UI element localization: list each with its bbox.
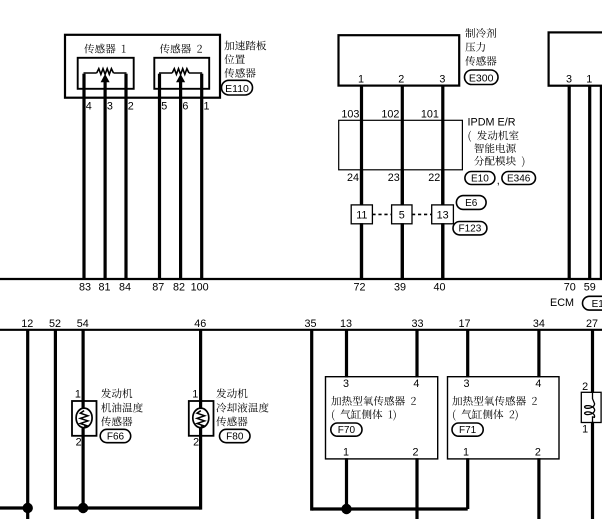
svg-text:24: 24	[347, 172, 359, 184]
IPDM label ( 发动机室	[469, 130, 519, 141]
svg-text:E300: E300	[469, 72, 494, 84]
potentiometer sensor2 wiper arrow	[177, 75, 184, 82]
ECM pin 70 label	[564, 281, 576, 293]
sensor2 pin1 drop	[200, 74, 203, 98]
F80 label 发动机	[216, 388, 247, 398]
wire E300-1 to IPDM	[360, 86, 363, 279]
E300 pin 1 label	[358, 74, 364, 86]
E110 side label 传感器	[224, 68, 255, 78]
ground rail 1	[55, 506, 200, 509]
svg-text:1: 1	[204, 101, 210, 113]
F66 label 发动机	[101, 388, 132, 398]
svg-text:2: 2	[535, 446, 541, 458]
svg-text:1: 1	[358, 74, 364, 86]
wire ECM 46 to F80	[199, 330, 202, 401]
svg-text:22: 22	[428, 172, 440, 184]
svg-text:1: 1	[75, 388, 81, 400]
F80 pin 2 label	[193, 437, 199, 449]
svg-text:4: 4	[535, 378, 541, 390]
wire E300-2 to IPDM	[401, 86, 404, 279]
ECM pin 59 label	[584, 281, 596, 293]
wire F71 pin2 down	[537, 458, 540, 519]
connector ref F66 oval	[100, 429, 131, 442]
IPDM pin 24 label	[347, 172, 359, 184]
IPDM pin 23 label	[388, 172, 400, 184]
connector ref E10 oval	[465, 172, 495, 185]
svg-text:11: 11	[356, 210, 367, 222]
svg-text:F80: F80	[226, 432, 244, 443]
svg-text:101: 101	[421, 108, 439, 120]
F66 label 机油温度	[101, 403, 143, 413]
wire F80 pin2 to rail	[199, 435, 202, 510]
connector ref E16 oval (cropped)	[583, 296, 602, 310]
svg-text:F66: F66	[107, 432, 125, 443]
engine coolant temp sensor F80 box	[189, 401, 214, 436]
svg-text:13: 13	[437, 210, 449, 222]
F70 pin 2 label	[412, 446, 418, 458]
E300 side label 压力	[465, 42, 485, 52]
ECM pin 81 label	[98, 281, 110, 293]
wire F66 pin2 to rail	[81, 435, 84, 508]
E300 side label 制冷剂	[465, 28, 496, 38]
E110 pin 5 label	[161, 101, 167, 113]
potentiometer sensor1 wiper arrow	[101, 75, 108, 82]
ECM pin 40 label	[433, 281, 445, 293]
sensor1 pin4 drop	[82, 74, 85, 98]
E300 pin 2 label	[398, 74, 404, 86]
wire E110 to ECM pin 81	[103, 98, 106, 279]
F71 pin 2 label	[535, 446, 541, 458]
E110 pin 4 label	[86, 101, 92, 113]
F66 thermistor zigzag	[80, 411, 88, 427]
svg-text:E6: E6	[465, 198, 478, 209]
heater coil	[585, 393, 595, 422]
svg-text:F123: F123	[459, 224, 482, 235]
svg-text:81: 81	[98, 281, 110, 293]
accelerator pedal position sensor E110 outer box	[65, 35, 220, 98]
IPDM pin 103 label	[341, 108, 359, 120]
ECM name label	[550, 297, 574, 309]
F70 pin 1 label	[343, 446, 349, 458]
junction dot on wire 12	[23, 503, 33, 513]
F71 label ( 气缸侧体 2 )	[453, 409, 518, 420]
svg-text:13: 13	[340, 318, 352, 330]
svg-text:4: 4	[86, 101, 92, 113]
wire E110 to ECM pin 83	[82, 98, 85, 279]
svg-text:2: 2	[128, 101, 134, 113]
svg-text:5: 5	[161, 101, 167, 113]
F80 interior wire stub bottom	[199, 425, 202, 436]
sensor2 pin5 drop	[158, 74, 161, 98]
wire heater pin1 down	[591, 422, 594, 519]
E110 pin 1 label	[204, 101, 210, 113]
sensor1 pin2 drop	[124, 74, 127, 98]
wire top-right pin1 to ECM 59	[588, 86, 591, 279]
IPDM label 分配模块 )	[474, 156, 524, 167]
IPDM label 智能电源	[474, 143, 516, 153]
wire ECM 34 to F71 pin4	[537, 330, 540, 378]
svg-text:E346: E346	[507, 173, 531, 184]
wire ECM 13 to F70 pin3	[345, 330, 348, 378]
svg-text:102: 102	[381, 108, 399, 120]
ECM pin 83 label	[79, 281, 91, 293]
svg-text:100: 100	[191, 281, 209, 293]
F80 label 冷却液温度	[217, 403, 269, 413]
svg-text:E10: E10	[471, 173, 489, 184]
svg-text:1: 1	[343, 446, 349, 458]
ground rail 2	[312, 507, 468, 510]
connector ref F70 oval	[331, 423, 362, 436]
svg-text:17: 17	[458, 318, 470, 330]
F80 thermistor zigzag	[197, 411, 205, 427]
svg-text:3: 3	[439, 74, 445, 86]
wire connector 13 to ECM 40	[441, 223, 444, 279]
svg-text:87: 87	[152, 281, 164, 293]
heater element box (cropped)	[581, 392, 601, 422]
E110 pin 6 label	[182, 101, 188, 113]
svg-text:52: 52	[49, 318, 61, 330]
ECM top edge line	[0, 278, 602, 280]
svg-text:1: 1	[463, 446, 469, 458]
connector ref F80 oval	[220, 429, 251, 442]
svg-text:27: 27	[586, 318, 598, 330]
svg-text:12: 12	[21, 318, 33, 330]
comma between E10 and E346	[497, 175, 500, 187]
wire ECM 12 down	[26, 330, 29, 519]
ECM pin 27 label	[586, 318, 598, 330]
svg-text:54: 54	[77, 318, 89, 330]
potentiometer sensor1 inner box	[78, 58, 134, 89]
ECM pin 33 label	[411, 318, 423, 330]
F80 interior wire stub top	[199, 400, 202, 412]
svg-text:ECM: ECM	[550, 297, 574, 309]
potentiometer sensor2 track	[159, 72, 202, 74]
IPDM pin 22 label	[428, 172, 440, 184]
svg-text:82: 82	[173, 281, 185, 293]
F66 pin 1 label	[75, 388, 81, 400]
wire E110 to ECM pin 84	[124, 98, 127, 279]
F66 interior wire stub bottom	[81, 425, 84, 436]
svg-text:72: 72	[353, 281, 365, 293]
ECM pin 82 label	[173, 281, 185, 293]
wire connector 11 to ECM 72	[360, 223, 363, 279]
F66 thermistor ellipse	[76, 408, 92, 428]
svg-text:83: 83	[79, 281, 91, 293]
top-right pin 3 label	[566, 74, 572, 86]
IPDM E/R name label	[468, 117, 516, 129]
junction dot F70 on rail 2	[341, 504, 351, 514]
wire ECM 12 branch left	[0, 506, 28, 509]
connector ref E110 oval	[222, 80, 253, 95]
F66 label 传感器	[101, 417, 132, 427]
F80 thermistor ellipse	[193, 408, 209, 428]
connector ref F123 oval	[453, 222, 487, 235]
connector ref E6 oval	[456, 196, 486, 210]
wire ECM 35 down	[310, 330, 313, 511]
F71 pin 1 label	[463, 446, 469, 458]
wire E110 to ECM pin 87	[158, 98, 161, 279]
dashed link 11-5	[372, 213, 391, 215]
engine oil temp sensor F66 box	[72, 401, 97, 436]
label sensor1 传感器 1	[84, 44, 125, 54]
ECM pin 46 label	[194, 318, 206, 330]
wire F71 pin1 up from rail 2	[466, 458, 469, 509]
connector ref F71 oval	[452, 423, 483, 436]
svg-text:2: 2	[412, 446, 418, 458]
wire ECM 54 to F66	[81, 330, 84, 401]
ECM pin 13 label	[340, 318, 352, 330]
wire E300-3 to IPDM	[441, 86, 444, 279]
wire connector 5 to ECM 39	[401, 223, 404, 279]
F71 pin 3 label	[463, 378, 469, 390]
svg-text:1: 1	[582, 423, 588, 435]
ECM pin 100 label	[191, 281, 209, 293]
wire IPDM 24 to connector 11	[360, 170, 363, 206]
svg-text:70: 70	[564, 281, 576, 293]
top-right pin 1 label	[586, 74, 592, 86]
svg-text:2: 2	[398, 74, 404, 86]
svg-text:84: 84	[119, 281, 131, 293]
svg-text:59: 59	[584, 281, 596, 293]
junction dot F66 on rail 1	[78, 503, 88, 513]
F70 pin 3 label	[343, 378, 349, 390]
svg-text:33: 33	[411, 318, 423, 330]
ECM pin 84 label	[119, 281, 131, 293]
svg-text:3: 3	[343, 378, 349, 390]
svg-text:40: 40	[433, 281, 445, 293]
ECM pin 12 label	[21, 318, 33, 330]
IPDM E/R box	[339, 120, 463, 170]
svg-text:F70: F70	[338, 425, 356, 436]
svg-text:3: 3	[463, 378, 469, 390]
inline connector pin 11 box	[351, 205, 372, 224]
heater pin 1 label	[582, 423, 588, 435]
svg-text:23: 23	[388, 172, 400, 184]
wire E110 to ECM pin 100	[200, 98, 203, 279]
F70 label ( 气缸侧体 1 )	[332, 409, 396, 420]
svg-text:E16: E16	[592, 299, 602, 310]
heater pin 2 label	[582, 381, 588, 393]
ECM pin 39 label	[394, 281, 406, 293]
wire E110 to ECM pin 82	[179, 98, 182, 279]
potentiometer sensor1 resistor zigzag	[97, 69, 114, 75]
wire IPDM 22 to connector 13	[441, 170, 444, 206]
connector ref E346 oval	[502, 172, 536, 185]
svg-text:35: 35	[304, 318, 316, 330]
F70 label 加热型氧传感器 2	[331, 396, 416, 406]
svg-text:6: 6	[182, 101, 188, 113]
E110 side label 位置	[224, 54, 244, 64]
svg-text:2: 2	[193, 437, 199, 449]
ECM pin 35 label	[304, 318, 316, 330]
F71 label 加热型氧传感器 2	[452, 396, 537, 406]
ECM pin 72 label	[353, 281, 365, 293]
potentiometer sensor1 track	[84, 72, 127, 74]
wire ECM 27 to heater pin2	[591, 330, 594, 393]
F66 interior wire stub top	[81, 400, 84, 412]
svg-text:46: 46	[194, 318, 206, 330]
label sensor2 传感器 2	[160, 44, 202, 54]
connector ref E300 oval	[465, 70, 499, 85]
potentiometer sensor2 resistor zigzag	[172, 69, 189, 75]
potentiometer sensor2 inner box	[154, 58, 209, 89]
heated oxygen sensor 2 bank2 F71 box	[448, 377, 560, 459]
wire F70 pin2 down	[415, 458, 418, 519]
inline connector pin 5 box	[392, 205, 412, 224]
svg-text:3: 3	[566, 74, 572, 86]
top-right sensor box (cropped)	[549, 32, 602, 85]
sensor2 wiper stem	[179, 81, 182, 98]
E300 pin 3 label	[439, 74, 445, 86]
wire IPDM 23 to connector 5	[401, 170, 404, 206]
wire F70 pin1 to rail 2	[345, 458, 348, 509]
F80 pin 1 label	[192, 388, 198, 400]
wire ECM 17 to F71 pin3	[466, 330, 469, 378]
E110 pin 2 label	[128, 101, 134, 113]
F71 pin 4 label	[535, 378, 541, 390]
wire top-right cropped at edge	[600, 86, 602, 279]
F66 pin 2 label	[76, 437, 82, 449]
ECM bottom edge line	[0, 329, 602, 331]
svg-text:,: ,	[497, 175, 500, 187]
svg-text:1: 1	[192, 388, 198, 400]
E110 side label 加速踏板	[224, 41, 266, 51]
ECM pin 52 label	[49, 318, 61, 330]
svg-text:39: 39	[394, 281, 406, 293]
wire ECM 33 to F70 pin4	[415, 330, 418, 378]
svg-text:F71: F71	[459, 425, 477, 436]
refrigerant pressure sensor E300 box	[339, 35, 460, 85]
svg-text:34: 34	[533, 318, 545, 330]
F80 label 传感器	[216, 417, 247, 427]
IPDM pin 102 label	[381, 108, 399, 120]
E300 side label 传感器	[465, 56, 496, 66]
svg-text:3: 3	[107, 101, 113, 113]
F70 pin 4 label	[413, 378, 419, 390]
sensor1 wiper stem	[103, 81, 106, 98]
inline connector pin 13 box	[432, 205, 454, 224]
svg-text:103: 103	[341, 108, 359, 120]
IPDM pin 101 label	[421, 108, 439, 120]
heated oxygen sensor 2 bank1 F70 box	[326, 377, 438, 459]
svg-text:2: 2	[76, 437, 82, 449]
svg-text:4: 4	[413, 378, 419, 390]
wire top-right pin3 to ECM 70	[568, 86, 571, 279]
dashed link 5-13	[412, 213, 432, 215]
ECM pin 87 label	[152, 281, 164, 293]
ECM pin 54 label	[77, 318, 89, 330]
svg-text:5: 5	[399, 210, 405, 222]
svg-text:2: 2	[582, 381, 588, 393]
svg-text:E110: E110	[225, 83, 249, 95]
svg-text:IPDM E/R: IPDM E/R	[468, 117, 516, 129]
ECM pin 34 label	[533, 318, 545, 330]
E110 pin 3 label	[107, 101, 113, 113]
wire ECM 52 down	[54, 330, 57, 510]
ECM pin 17 label	[458, 318, 470, 330]
svg-text:1: 1	[586, 74, 592, 86]
